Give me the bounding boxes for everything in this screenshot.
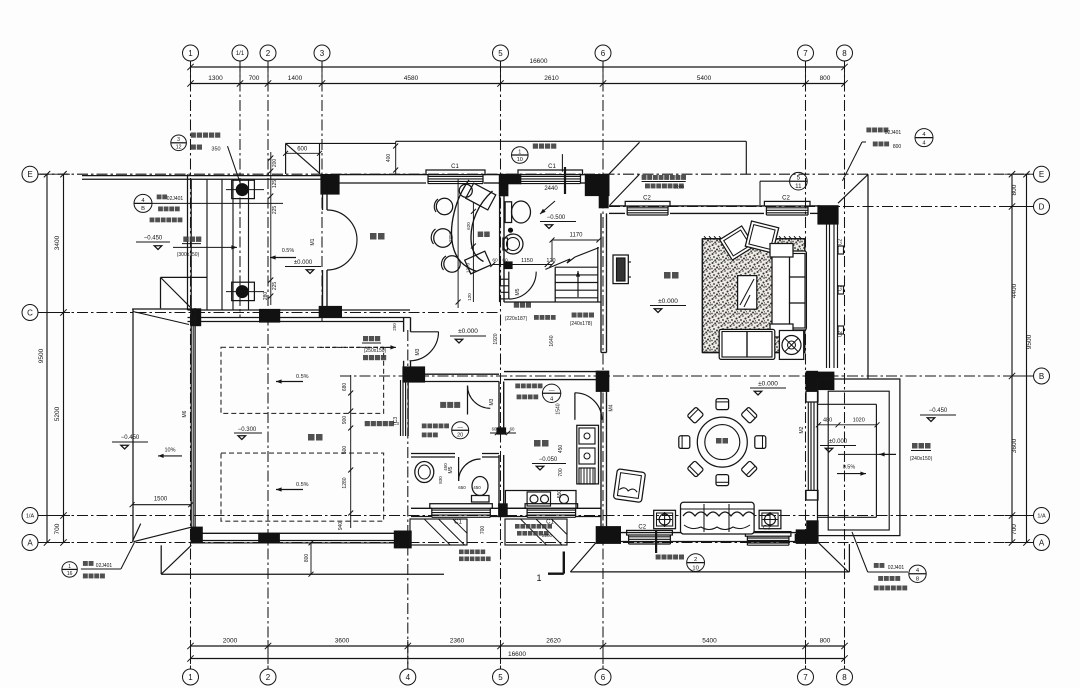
svg-text:1640: 1640 (549, 335, 555, 346)
svg-text:225: 225 (272, 206, 278, 215)
svg-text:5400: 5400 (697, 75, 712, 82)
axis gridline D (609, 206, 1033, 208)
column 7/1A (806, 520, 818, 543)
svg-text:2: 2 (266, 49, 271, 58)
column 2/A (258, 533, 280, 544)
svg-text:11: 11 (795, 183, 802, 190)
callout 3/12 (171, 135, 187, 151)
svg-text:5400: 5400 (702, 638, 717, 645)
dining table (697, 417, 747, 467)
svg-text:125: 125 (272, 180, 278, 189)
window C3 (400, 380, 402, 436)
axis bubble 8 bottom (837, 669, 853, 685)
sofa south 2seat (719, 329, 775, 359)
svg-text:2850: 2850 (448, 231, 453, 242)
door M3 a (411, 331, 439, 333)
kitchen north wall (504, 371, 596, 373)
planter right (759, 510, 781, 528)
svg-text:450: 450 (558, 445, 564, 454)
svg-text:A: A (1039, 538, 1045, 547)
pvc curtain label bottom (515, 524, 520, 529)
terrace steps label (912, 443, 918, 449)
toilet U (505, 202, 512, 223)
C wall (188, 309, 411, 311)
svg-text:—: — (457, 425, 463, 431)
svg-text:900: 900 (342, 416, 348, 425)
svg-text:6: 6 (601, 49, 606, 58)
svg-text:1/1: 1/1 (236, 51, 245, 57)
porch steps label (183, 237, 188, 242)
svg-text:3600: 3600 (335, 638, 350, 645)
1A wall (411, 507, 432, 509)
svg-text:2440: 2440 (544, 186, 558, 192)
svg-text:C2: C2 (838, 331, 844, 338)
svg-text:16600: 16600 (508, 651, 526, 658)
porch small dims (270, 152, 272, 305)
svg-text:700: 700 (1011, 524, 1018, 535)
svg-text:±0.000: ±0.000 (458, 328, 478, 335)
svg-text:1: 1 (188, 49, 193, 58)
svg-text:600: 600 (297, 147, 308, 153)
svg-text:0.5%: 0.5% (296, 482, 309, 488)
driveway bottom diagonals (132, 524, 140, 542)
terrace inner (818, 403, 877, 405)
axis gridline 2 (267, 61, 269, 669)
svg-text:M3: M3 (415, 348, 421, 355)
svg-text:1/A: 1/A (1037, 514, 1046, 520)
axis gridline 8 (844, 61, 846, 669)
door M4 (574, 393, 576, 420)
garage canopy west wedge (132, 308, 191, 310)
door M3 b (467, 386, 469, 415)
axis bubble 3 top (314, 45, 330, 61)
svg-text:450: 450 (473, 485, 481, 490)
svg-text:C2: C2 (643, 196, 651, 202)
svg-text:800: 800 (1011, 184, 1018, 195)
callout 4/B (134, 194, 152, 212)
entry label (370, 233, 377, 240)
svg-text:1/A: 1/A (26, 514, 35, 520)
svg-text:M1: M1 (310, 238, 316, 245)
svg-text:2: 2 (266, 673, 271, 682)
svg-text:16600: 16600 (529, 58, 547, 65)
svg-text:9500: 9500 (38, 348, 45, 363)
window C1 d (525, 504, 578, 509)
svg-text:2200: 2200 (542, 533, 553, 538)
svg-text:−0.300: −0.300 (238, 427, 257, 433)
kitchen counter east (577, 425, 599, 484)
planter left (654, 510, 676, 528)
svg-text:M6: M6 (182, 410, 188, 417)
svg-text:9500: 9500 (1026, 334, 1033, 349)
window C1b mullion (564, 167, 566, 194)
svg-text:700: 700 (558, 468, 564, 477)
axis bubble 5 bottom (493, 669, 509, 685)
svg-text:5200: 5200 (54, 406, 61, 421)
svg-text:(240x150): (240x150) (910, 456, 933, 462)
terrace outer (818, 379, 900, 536)
axis bubble 5 top (493, 45, 509, 61)
svg-text:−0.450: −0.450 (929, 408, 948, 414)
column 6/E (585, 174, 610, 196)
svg-text:1300: 1300 (208, 75, 223, 82)
garage right dims (350, 375, 352, 528)
svg-text:C: C (27, 308, 33, 317)
svg-text:1500: 1500 (154, 497, 168, 503)
svg-text:B: B (1039, 372, 1044, 381)
pillow 1 (720, 226, 755, 260)
svg-text:2620: 2620 (546, 638, 561, 645)
entry wall M1 side (322, 194, 324, 210)
svg-text:120: 120 (467, 293, 472, 301)
svg-text:940: 940 (338, 522, 344, 531)
bath arrow (540, 201, 555, 214)
svg-text:500: 500 (342, 446, 348, 455)
svg-text:5: 5 (498, 673, 503, 682)
svg-text:1370: 1370 (466, 262, 471, 273)
column 4/B (402, 366, 425, 382)
dining west wall (600, 391, 602, 532)
svg-text:830: 830 (438, 476, 443, 484)
window C1 a (426, 170, 485, 175)
svg-text:225: 225 (272, 282, 278, 291)
B wall worker room (404, 373, 499, 375)
svg-text:12: 12 (176, 144, 182, 150)
axis gridline 4 (407, 330, 409, 669)
svg-text:−0.050: −0.050 (539, 457, 558, 463)
svg-text:1540: 1540 (556, 403, 562, 414)
column 4/A (394, 531, 412, 549)
axis bubble 6 top (595, 45, 611, 61)
NW canopy corner box (161, 276, 208, 278)
svg-text:1150: 1150 (521, 258, 533, 264)
stair labels (514, 303, 519, 308)
terrace top edge (286, 142, 396, 144)
axis bubble E left (22, 166, 38, 182)
column 1/A (191, 527, 203, 544)
window C1 c (430, 504, 493, 509)
svg-text:120: 120 (546, 258, 555, 264)
svg-text:D: D (1039, 202, 1045, 211)
svg-text:4: 4 (406, 673, 411, 682)
corner column D/8 (817, 205, 838, 224)
svg-text:700: 700 (249, 75, 260, 82)
callout 1/10 top (512, 147, 529, 164)
worker label (440, 402, 446, 408)
axis gridline A (38, 542, 1033, 544)
apron line east (867, 174, 869, 379)
svg-text:C2: C2 (838, 239, 844, 246)
svg-text:680: 680 (342, 383, 348, 392)
hole label C3 (365, 421, 370, 426)
basin U (503, 234, 523, 254)
axis bubble 6 bottom (595, 669, 611, 685)
terrace dim 400 (395, 141, 397, 174)
bottom dimension lines (191, 645, 845, 647)
axis bubble 1/A right (1034, 508, 1050, 524)
svg-text:1170: 1170 (570, 233, 584, 239)
stair small steps (501, 278, 509, 280)
north wall E axis (339, 174, 426, 176)
SW canopy (160, 545, 162, 574)
svg-text:700: 700 (480, 526, 486, 535)
svg-text:5: 5 (498, 49, 503, 58)
bath partition (411, 453, 455, 455)
kitchen counter south (505, 491, 576, 509)
svg-text:1: 1 (518, 149, 521, 155)
axis gridline 1/A (38, 515, 1033, 517)
svg-text:1280: 1280 (342, 477, 348, 488)
svg-text:8: 8 (842, 673, 847, 682)
svg-text:8: 8 (842, 49, 847, 58)
svg-text:(250x150): (250x150) (364, 348, 387, 354)
bath west wall (499, 196, 501, 302)
axis gridline 1 (190, 61, 192, 669)
axis bubble B right (1034, 368, 1050, 384)
stair dims (492, 264, 552, 266)
column 6/B (596, 371, 610, 392)
worker kitchen wall (498, 382, 500, 429)
svg-text:−0.450: −0.450 (121, 435, 140, 441)
dining chairs (716, 399, 729, 410)
bar counter (452, 180, 477, 272)
svg-text:A: A (27, 538, 33, 547)
canopy hatch right (505, 519, 567, 545)
window C1 b (518, 170, 583, 175)
axis bubble A right (1034, 535, 1050, 551)
porch colonnade (82, 175, 322, 177)
bar stools (459, 184, 472, 197)
svg-text:800: 800 (304, 554, 310, 563)
left dimension lines (46, 174, 48, 542)
svg-text:−0.450: −0.450 (144, 236, 163, 242)
stair break line (545, 259, 570, 269)
counter callout (542, 384, 560, 402)
SE canopy diagonals (570, 542, 596, 572)
svg-text:7: 7 (803, 49, 808, 58)
svg-text:−0.500: −0.500 (547, 215, 566, 221)
callout 5/11 (790, 172, 808, 190)
svg-text:C1: C1 (451, 164, 459, 170)
wall end blk stair (503, 261, 512, 269)
canopy hatch left (410, 519, 467, 545)
terrace middle (828, 391, 889, 530)
axis gridline 7 (805, 61, 807, 669)
svg-text:10%: 10% (164, 448, 175, 454)
svg-text:±0.000: ±0.000 (294, 260, 313, 266)
window C2 a (625, 201, 670, 206)
axis gridline E (38, 173, 1033, 175)
svg-text:±0.000: ±0.000 (658, 298, 678, 305)
svg-text:1: 1 (188, 673, 193, 682)
svg-text:480: 480 (823, 418, 832, 424)
svg-text:C2: C2 (838, 285, 844, 292)
column 7/B lower (806, 371, 818, 392)
svg-text:800: 800 (820, 75, 831, 82)
axis bubble A left (22, 535, 38, 551)
door M5 upper (508, 272, 510, 299)
column 6/A (596, 526, 621, 544)
garage west wall door M6 (190, 308, 192, 542)
axis gridline B (340, 375, 1033, 377)
svg-text:60: 60 (510, 427, 515, 432)
door M5 lower (458, 457, 460, 481)
svg-text:(220x187): (220x187) (505, 316, 528, 322)
sofa east (772, 251, 806, 330)
svg-text:7: 7 (803, 673, 808, 682)
rug fringe (704, 236, 706, 239)
axis bubble E right (1034, 166, 1050, 182)
svg-text:3400: 3400 (54, 235, 61, 250)
worker west wall (403, 317, 405, 332)
svg-text:650: 650 (458, 485, 466, 490)
svg-text:700: 700 (54, 523, 61, 534)
porch column bottom (232, 282, 255, 300)
section mark 1 (563, 552, 565, 574)
axis bubble D right (1034, 199, 1050, 215)
svg-text:2: 2 (694, 557, 697, 563)
window C2 b (764, 201, 810, 206)
svg-text:1: 1 (536, 573, 541, 583)
driveway edge (132, 309, 134, 542)
door M1 (327, 210, 357, 240)
svg-text:1: 1 (68, 564, 71, 570)
svg-text:800: 800 (893, 144, 902, 150)
svg-text:C2: C2 (638, 525, 646, 531)
car space 2 (221, 453, 384, 521)
garage steps label (363, 336, 368, 341)
svg-text:2360: 2360 (450, 638, 465, 645)
column 2/C (259, 309, 280, 323)
lamp table (779, 331, 803, 360)
svg-text:E: E (1039, 170, 1044, 179)
svg-text:450: 450 (443, 463, 448, 471)
column 3/C (319, 306, 342, 318)
axis bubble 7 top (798, 45, 814, 61)
svg-text:02J401: 02J401 (885, 130, 902, 136)
svg-text:2200: 2200 (674, 185, 685, 190)
svg-text:350: 350 (211, 147, 220, 153)
living west wall (600, 213, 602, 352)
D axis wall (609, 205, 625, 207)
callout 2/10 (687, 554, 705, 572)
svg-text:20: 20 (457, 433, 463, 439)
svg-text:4400: 4400 (1011, 283, 1018, 298)
axis bubble 8 top (837, 45, 853, 61)
sofa east arm (770, 244, 793, 258)
svg-text:400: 400 (386, 154, 392, 163)
svg-text:16: 16 (67, 571, 73, 577)
window C2 d (745, 532, 791, 537)
stair up arrow (577, 271, 579, 297)
svg-text:—: — (549, 388, 555, 394)
svg-text:250: 250 (392, 323, 397, 331)
svg-text:0.5%: 0.5% (282, 248, 295, 254)
axis bubble 1 top (183, 45, 199, 61)
bar dims (457, 179, 459, 308)
car space 1 (221, 347, 384, 413)
column 5/E (499, 174, 522, 185)
kitchen label (534, 440, 541, 447)
dining south wall (620, 532, 796, 534)
svg-text:620: 620 (466, 222, 471, 230)
svg-text:6: 6 (601, 673, 606, 682)
svg-text:2610: 2610 (544, 75, 559, 82)
svg-text:3: 3 (320, 49, 325, 58)
garage label (308, 434, 315, 441)
pillow 2 (745, 221, 778, 253)
svg-text:4580: 4580 (404, 75, 419, 82)
callout 1/16 (62, 562, 77, 577)
armchair (613, 469, 645, 503)
svg-text:10: 10 (517, 157, 523, 163)
window M2 (807, 402, 809, 491)
axis gridline 6 (602, 61, 604, 669)
svg-text:M3: M3 (489, 398, 495, 405)
axis gridline 3 (321, 61, 323, 322)
coffee table (738, 276, 757, 310)
svg-text:3: 3 (177, 137, 180, 143)
axis bubble 4 bottom (400, 669, 416, 685)
svg-text:2000: 2000 (223, 638, 238, 645)
bar label (478, 232, 484, 238)
toilet W (472, 477, 488, 496)
svg-text:M2: M2 (799, 426, 805, 433)
svg-text:C3: C3 (393, 417, 399, 424)
column 1/C (190, 308, 201, 326)
svg-text:200: 200 (272, 159, 278, 168)
svg-text:0.5%: 0.5% (296, 374, 309, 380)
svg-text:(240x178): (240x178) (570, 321, 593, 327)
axis bubble 1/1 top (232, 45, 248, 61)
entry steps 600 (285, 143, 287, 174)
svg-text:60: 60 (492, 427, 497, 432)
top dimension lines (191, 66, 845, 68)
callout 4/8 SE (909, 565, 926, 582)
stair treads (555, 266, 598, 268)
svg-text:C1: C1 (548, 164, 556, 170)
svg-text:±0.000: ±0.000 (829, 439, 848, 445)
canopy diagonal (609, 142, 640, 174)
axis bubble 1 bottom (183, 669, 199, 685)
washbasin callout (452, 422, 469, 439)
svg-text:02J401: 02J401 (167, 196, 184, 202)
porch column top (232, 180, 255, 198)
svg-text:10: 10 (692, 565, 698, 571)
svg-text:800: 800 (820, 638, 831, 645)
canopy texts (459, 550, 464, 555)
living rug (702, 239, 804, 353)
svg-text:60: 60 (492, 258, 498, 264)
svg-text:E: E (27, 170, 32, 179)
svg-text:M5: M5 (448, 466, 454, 473)
basin W (415, 462, 434, 483)
axis gridline 1/1 (239, 61, 241, 318)
svg-text:02J401: 02J401 (888, 565, 905, 571)
axis bubble 2 top (260, 45, 276, 61)
terrace dims (818, 424, 877, 426)
axis gridline C (38, 312, 500, 314)
svg-text:3600: 3600 (1011, 438, 1018, 453)
svg-text:±0.000: ±0.000 (758, 381, 778, 388)
driveway top edge (132, 309, 134, 311)
dining sofa (681, 502, 755, 534)
living label (664, 272, 671, 279)
svg-text:5: 5 (797, 175, 801, 182)
svg-text:1020: 1020 (853, 418, 865, 424)
axis bubble 2 bottom (260, 669, 276, 685)
column 7/B (805, 372, 834, 391)
